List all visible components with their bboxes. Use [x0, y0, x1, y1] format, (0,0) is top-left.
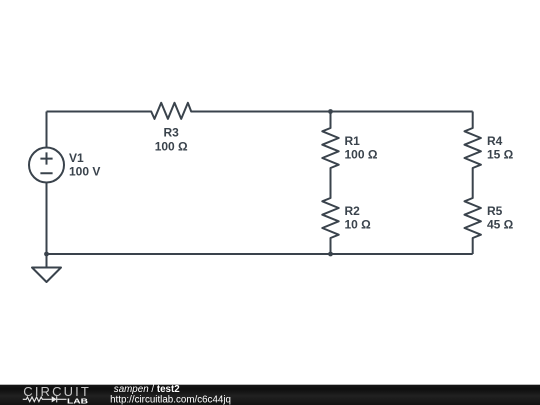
svg-text:http://circuitlab.com/c6c44jq: http://circuitlab.com/c6c44jq — [110, 394, 231, 405]
svg-text:R3: R3 — [164, 125, 180, 139]
svg-text:45 Ω: 45 Ω — [487, 218, 514, 232]
svg-text:R5: R5 — [487, 204, 503, 218]
svg-text:LAB: LAB — [67, 396, 89, 405]
svg-text:R1: R1 — [345, 134, 361, 148]
svg-text:15 Ω: 15 Ω — [487, 148, 514, 162]
svg-text:V1: V1 — [69, 151, 84, 165]
svg-text:R4: R4 — [487, 134, 503, 148]
svg-text:100 V: 100 V — [69, 165, 100, 179]
svg-text:R2: R2 — [345, 204, 361, 218]
svg-text:100 Ω: 100 Ω — [345, 148, 378, 162]
svg-text:10 Ω: 10 Ω — [345, 218, 372, 232]
svg-text:100 Ω: 100 Ω — [155, 140, 188, 154]
